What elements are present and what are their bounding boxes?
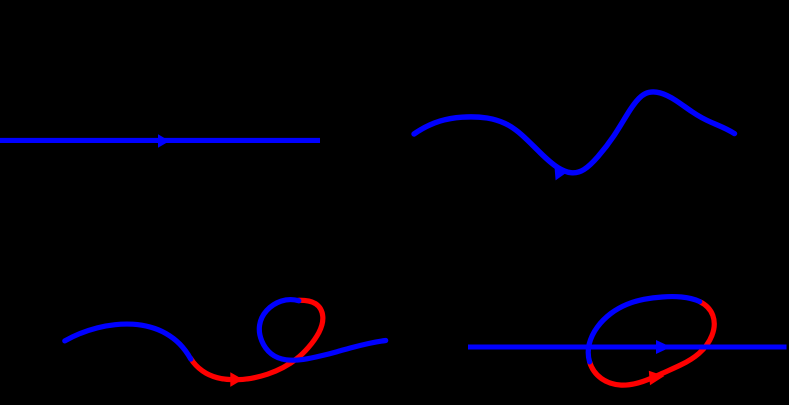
wire: red dip + right side of loop [191, 300, 323, 379]
wire: blue horizontal line [0, 138, 320, 143]
red arrowhead at bottom of loop, pointing right slightly up [649, 371, 665, 385]
wire: blue wavy curve [414, 92, 735, 173]
arrowhead at trough of wavy curve, pointing right [555, 167, 567, 181]
wire: blue left side of loop + exit tail [259, 300, 385, 361]
red arrowhead at dip bottom, pointing right [230, 372, 243, 387]
blue arrowhead on figure-4 line, pointing right [656, 340, 671, 354]
wire: blue start hump of figure 3 [65, 324, 191, 359]
arrowhead on figure-1 line, pointing right [158, 134, 170, 148]
wire: red right+bottom arc of loop [590, 302, 715, 386]
wire: blue left+top arc of loop [588, 297, 699, 362]
wire: blue horizontal line of figure 4 [468, 344, 787, 349]
